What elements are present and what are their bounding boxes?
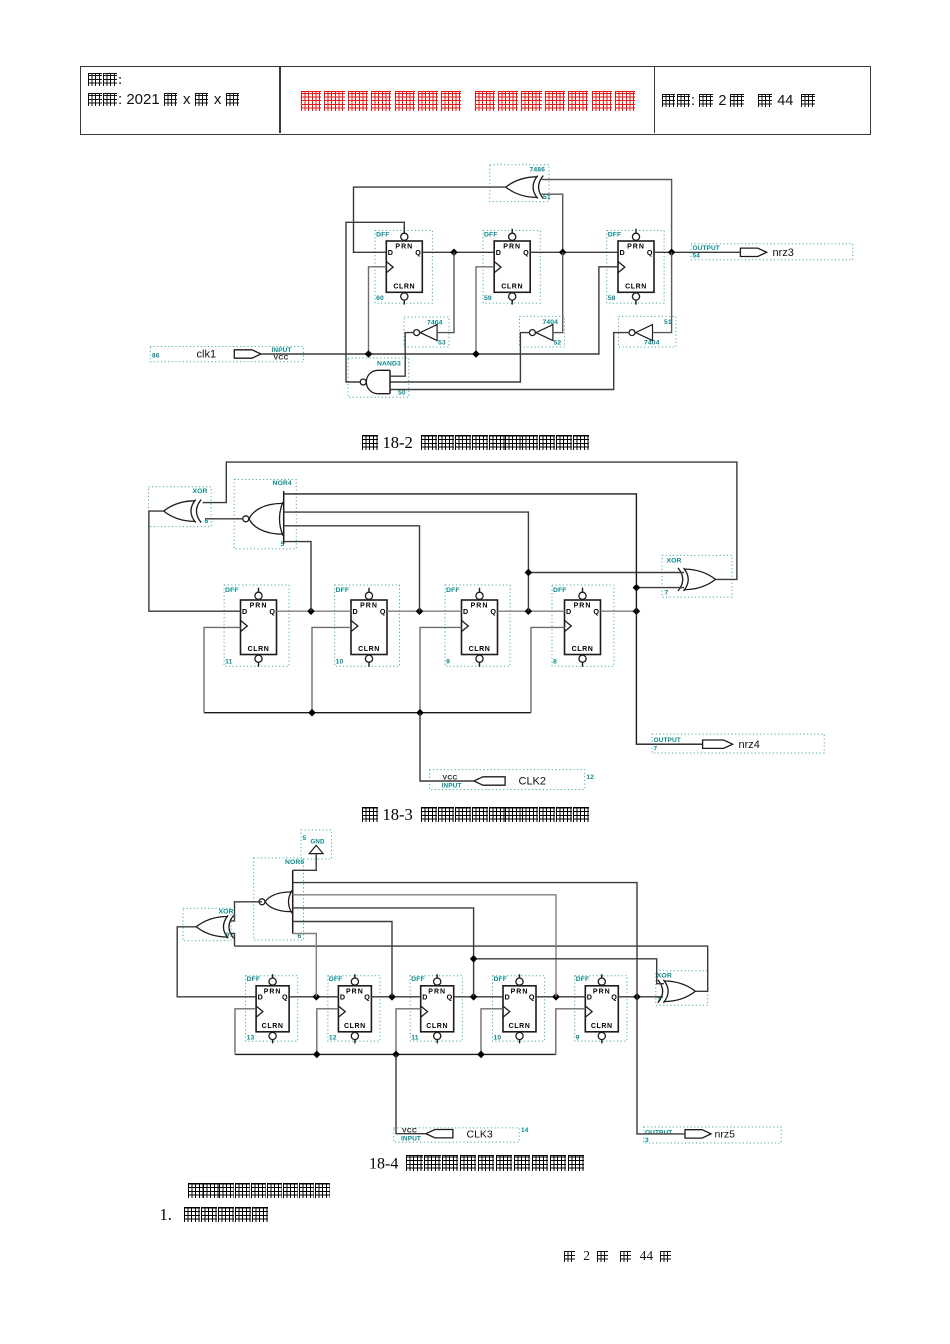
wire: clock riser to U11 — [396, 1009, 421, 1055]
junction node Q2 — [388, 993, 396, 1001]
svg-text:XOR: XOR — [667, 558, 682, 565]
svg-text:5: 5 — [303, 835, 307, 842]
svg-text:NAND3: NAND3 — [377, 361, 401, 368]
wire: XOR U6 output to D of U11 — [149, 511, 241, 611]
svg-text:XOR: XOR — [193, 488, 208, 495]
caption figure 18-2 — [362, 433, 590, 453]
wire: clock riser to U12 — [317, 1009, 339, 1055]
output pin nrz4 flag — [703, 740, 733, 748]
wire: clk1 net to clock inputs — [261, 267, 618, 354]
output pin nrz5 selection box — [644, 1127, 781, 1143]
wire: XOR U6c input2 elbow from long feedback line — [230, 934, 235, 947]
flip-flop U12 clock edge triangle — [338, 1006, 345, 1017]
gate U6c XOR selection box — [183, 908, 231, 940]
svg-text:PRN: PRN — [627, 244, 645, 251]
wire: net Q2 (U59.Q to U58.D) — [530, 251, 618, 253]
svg-text:CLRN: CLRN — [344, 1023, 366, 1030]
wire: clock riser to U10 — [312, 627, 351, 712]
footer page number — [564, 1248, 673, 1264]
flip-flop U8 body — [565, 600, 601, 655]
flip-flop U13 PRN bubble pin — [269, 978, 276, 985]
svg-text:XOR: XOR — [219, 909, 234, 916]
wire: clock rail — [204, 712, 531, 714]
svg-text:13: 13 — [247, 1035, 255, 1042]
svg-text:PRN: PRN — [360, 603, 378, 610]
flip-flop U9 selection box — [445, 585, 510, 666]
svg-text:Q: Q — [611, 993, 617, 1002]
wire: NOR6 input2 to node Q5 — [293, 883, 637, 997]
gate U7 XOR selection box — [662, 555, 732, 597]
flip-flop U59 PRN bubble pin — [509, 233, 516, 240]
gate U6b NOR6 selection box — [254, 858, 304, 940]
input pin CLK3 flag — [426, 1130, 453, 1138]
wire: NOR6 output to XOR U6c input1 — [230, 902, 263, 921]
svg-text:PRN: PRN — [395, 244, 413, 251]
junction clock rail at U10 riser — [308, 709, 316, 717]
svg-text:9: 9 — [576, 1035, 580, 1042]
flip-flop U12 body — [338, 986, 371, 1032]
svg-text:INPUT: INPUT — [401, 1136, 421, 1143]
inverter U51b selection box — [619, 316, 677, 347]
wire: NOR4 input2 to node Q3 riser — [284, 512, 529, 611]
wire: inverter U53 output to NAND input 1 — [390, 333, 414, 377]
svg-text:OUTPUT: OUTPUT — [645, 1130, 672, 1137]
svg-text:NOR4: NOR4 — [273, 480, 292, 487]
header red motto — [301, 89, 638, 115]
wire: Q2 down to inverter U52 input — [553, 252, 563, 332]
flip-flop U8 clock edge triangle — [565, 620, 572, 631]
flip-flop U11b CLRN bubble pin — [434, 1032, 441, 1039]
junction node Q2 — [559, 249, 567, 257]
wire: clock riser to U10 — [481, 1009, 503, 1055]
inverter U51b output bubble — [629, 330, 635, 336]
flip-flop U9b CLRN bubble pin — [598, 1032, 605, 1039]
junction node Q2 — [416, 607, 424, 615]
input pin CLK3 selection box — [394, 1128, 520, 1142]
svg-text:D: D — [258, 993, 263, 1002]
wire: net Q5 (U9.Q to XOR U7b input2) — [618, 996, 663, 998]
flip-flop U11 selection box — [224, 585, 289, 666]
svg-text:Q: Q — [593, 607, 599, 616]
wire: XOR U6c output to D of U13 — [177, 927, 256, 997]
svg-text:D: D — [505, 993, 510, 1002]
flip-flop U8 CLRN bubble pin — [579, 655, 586, 662]
svg-text:DFF: DFF — [576, 976, 590, 983]
junction node Q1 — [450, 249, 458, 257]
wire: node Q5 down to output nrz5 — [637, 997, 685, 1134]
wire: inverter U51 output to NAND input 3 — [390, 333, 629, 390]
svg-text:D: D — [422, 993, 427, 1002]
flip-flop U10b clock edge triangle — [503, 1006, 510, 1017]
flip-flop U58 PRN bubble pin — [632, 233, 639, 240]
flip-flop U9b clock edge triangle — [585, 1006, 592, 1017]
svg-text:Q: Q — [364, 993, 370, 1002]
gate U5 NOR4 (mirrored) input bar — [283, 491, 285, 544]
junction Q3 riser at tap to U7b — [470, 955, 478, 963]
flip-flop U10 selection box — [335, 585, 400, 666]
svg-text:XOR: XOR — [657, 973, 672, 980]
svg-text:VCC: VCC — [274, 355, 289, 362]
gate U51 7486 XOR (mirrored) body — [506, 177, 538, 198]
flip-flop U59 CLRN bubble pin — [509, 293, 516, 300]
flip-flop U60 CLRN bubble pin — [401, 293, 408, 300]
wire: NOR4 input4 elbow to node Q1 — [284, 542, 311, 612]
wire: NOR6 input5 to node Q2 — [293, 922, 392, 997]
svg-text:DFF: DFF — [553, 587, 567, 594]
junction Q3 riser to XOR U7 input1 — [525, 569, 533, 577]
wire: clk riser to U60 clock — [369, 267, 387, 354]
svg-text:D: D — [340, 993, 345, 1002]
svg-text:7486: 7486 — [530, 167, 546, 174]
flip-flop U58 CLRN bubble pin — [632, 293, 639, 300]
wire: CLK2 pin to clock rail — [420, 713, 474, 781]
wire: XOR input2 from node Q2 — [542, 194, 563, 252]
svg-text:PRN: PRN — [503, 244, 521, 251]
svg-text:D: D — [242, 607, 247, 616]
junction clk at U59 riser — [472, 350, 480, 358]
wire: NOR4 input1 to node Q4 riser — [284, 494, 637, 611]
svg-text:CLRN: CLRN — [358, 646, 380, 653]
svg-text:PRN: PRN — [346, 988, 364, 995]
svg-text:DFF: DFF — [608, 232, 622, 239]
wire: Q1 down to inverter U53 input — [437, 252, 454, 332]
svg-text:CLRN: CLRN — [625, 284, 647, 291]
flip-flop U9b PRN bubble pin — [598, 978, 605, 985]
wire: GND to NOR6 input bar top — [293, 854, 317, 871]
flip-flop U13 selection box — [246, 976, 298, 1041]
inverter U52 selection box — [520, 316, 565, 347]
svg-text:50: 50 — [398, 390, 406, 397]
svg-text:nrz5: nrz5 — [715, 1129, 736, 1141]
flip-flop U59 clock edge triangle — [494, 262, 501, 273]
svg-text:clk1: clk1 — [197, 349, 217, 361]
wire: node Q4 down to output nrz4 — [636, 611, 702, 744]
caption figure 18-3 — [362, 805, 590, 825]
svg-text:DFF: DFF — [329, 976, 343, 983]
junction clock rail at U11 riser and CLK3 drop — [392, 1051, 400, 1059]
svg-text:Q: Q — [447, 993, 453, 1002]
flip-flop U60 selection box — [375, 231, 432, 304]
input pin clk1 selection box — [150, 347, 303, 362]
flip-flop U8 PRN bubble pin — [579, 592, 586, 599]
svg-text:10: 10 — [494, 1035, 502, 1042]
svg-text:NOR6: NOR6 — [285, 859, 304, 866]
svg-text:Q: Q — [523, 248, 529, 257]
wire: XOR output to D of U60 — [354, 187, 506, 252]
svg-text:CLRN: CLRN — [501, 284, 523, 291]
wire: net Q3 (U11.Q to U10.D) — [454, 996, 503, 998]
svg-text:Q: Q — [380, 607, 386, 616]
svg-text:nrz4: nrz4 — [739, 739, 760, 751]
wire: NOR4 input3 to node Q2 — [284, 526, 420, 611]
svg-text:DFF: DFF — [446, 587, 460, 594]
gate U7b XOR body — [664, 981, 696, 1002]
flip-flop U60 PRN bubble pin — [401, 233, 408, 240]
gate U7 XOR body — [684, 569, 716, 590]
wire: CLK3 pin to clock rail — [396, 1054, 426, 1133]
inverter U53 triangle — [420, 325, 437, 341]
junction clock rail at U10 riser — [477, 1051, 485, 1059]
svg-text:GND: GND — [311, 839, 325, 846]
svg-text:PRN: PRN — [593, 988, 611, 995]
svg-text:CLK2: CLK2 — [519, 776, 547, 788]
header cell 1 line 1 — [88, 72, 122, 89]
svg-text:51: 51 — [664, 319, 672, 326]
wire: clock rail — [235, 1053, 556, 1055]
svg-text:Q: Q — [269, 607, 275, 616]
svg-text:86: 86 — [152, 353, 160, 360]
wire: clock riser to U9 — [420, 627, 462, 712]
svg-text:CLRN: CLRN — [572, 646, 594, 653]
svg-text:DFF: DFF — [484, 232, 498, 239]
flip-flop U11 PRN bubble pin — [255, 592, 262, 599]
wire: net Q4 (U8.Q to riser) — [601, 610, 637, 612]
svg-text:11: 11 — [225, 659, 233, 666]
svg-text:D: D — [566, 607, 571, 616]
svg-text:nrz3: nrz3 — [773, 247, 794, 259]
junction node Q1 — [313, 993, 321, 1001]
flip-flop U11 CLRN bubble pin — [255, 655, 262, 662]
svg-text:D: D — [587, 993, 592, 1002]
svg-text:DFF: DFF — [411, 976, 425, 983]
wire: clock riser to U9 — [556, 1009, 586, 1055]
svg-text:10: 10 — [336, 659, 344, 666]
flip-flop U13 body — [256, 986, 289, 1032]
svg-text:PRN: PRN — [511, 988, 529, 995]
junction clock rail at U9 riser and CLK2 drop — [416, 709, 424, 717]
junction node Q5 — [633, 993, 641, 1001]
svg-text:Q: Q — [529, 993, 535, 1002]
svg-text:12: 12 — [329, 1035, 337, 1042]
svg-text:52: 52 — [554, 340, 562, 347]
body heading (II) circuit working principle — [188, 1181, 331, 1201]
svg-text:INPUT: INPUT — [272, 347, 292, 354]
inverter U52 output bubble — [529, 330, 535, 336]
flip-flop U11 clock edge triangle — [241, 620, 248, 631]
flip-flop U11b body — [421, 986, 454, 1032]
svg-text:60: 60 — [376, 295, 384, 302]
junction node Q3 — [525, 607, 533, 615]
flip-flop U10b PRN bubble pin — [516, 978, 523, 985]
junction node Q4 — [633, 607, 641, 615]
inverter U52 triangle — [536, 325, 553, 341]
svg-text:OUTPUT: OUTPUT — [693, 245, 720, 252]
flip-flop U60 clock edge triangle — [386, 262, 393, 273]
flip-flop U59 body — [494, 241, 530, 292]
svg-text:59: 59 — [484, 295, 492, 302]
wire: NOR6 input4 to node Q3 — [293, 908, 474, 997]
wire: net Q1 (U13.Q to U12.D) — [289, 996, 338, 998]
wire: inverter U52 output to NAND input 2 — [390, 333, 529, 382]
flip-flop U58 selection box — [607, 231, 664, 304]
gate U50 output bubble — [360, 379, 366, 385]
flip-flop U13 clock edge triangle — [256, 1006, 263, 1017]
gate U6b NOR6 (mirrored) output bubble — [259, 899, 265, 905]
svg-text:CLRN: CLRN — [426, 1023, 448, 1030]
gate U6b NOR6 (mirrored) input bar — [292, 870, 294, 933]
flip-flop U10 body — [351, 600, 387, 655]
output pin nrz3 flag — [740, 248, 766, 256]
wire: clk riser to U59 clock — [476, 267, 494, 354]
wire: XOR U7 input1 from node Q3 riser — [528, 572, 684, 574]
input pin CLK2 flag — [474, 777, 505, 785]
svg-text:7: 7 — [654, 746, 658, 753]
gate U51 7486 XOR selection box — [490, 165, 549, 202]
gate U7b XOR selection box — [656, 971, 708, 1005]
wire: net Q4 (U10.Q to U9.D) — [536, 996, 585, 998]
wire: Q3 down to inverter U51 input — [653, 252, 672, 332]
inverter U53 selection box — [404, 317, 449, 347]
wire: node Q3 to XOR U7b input1 — [474, 959, 664, 984]
svg-text:8: 8 — [553, 659, 557, 666]
flip-flop U58 clock edge triangle — [618, 262, 625, 273]
flip-flop U9 PRN bubble pin — [476, 592, 483, 599]
svg-text:DFF: DFF — [247, 976, 261, 983]
gate U6 XOR (mirrored) body — [164, 501, 196, 522]
gate U5 NOR4 (mirrored) output bubble — [243, 516, 249, 522]
junction clock rail at U12 riser — [313, 1051, 321, 1059]
svg-text:Q: Q — [415, 248, 421, 257]
junction clk at U60 riser — [365, 350, 373, 358]
flip-flop U11b PRN bubble pin — [434, 978, 441, 985]
wire: feedback line from XOR U7b output — [235, 946, 708, 991]
gate U5 NOR4 (mirrored) body — [249, 503, 283, 534]
gate U50 NAND3 body (mirrored) — [366, 370, 390, 393]
ground symbol GND selection box — [301, 830, 332, 859]
wire: NOR4 output to XOR U6 input2 — [205, 518, 243, 520]
flip-flop U10 CLRN bubble pin — [365, 655, 372, 662]
input pin clk1 flag — [234, 350, 261, 358]
svg-text:D: D — [620, 248, 625, 257]
svg-text:D: D — [353, 607, 358, 616]
junction node Q3 — [470, 993, 478, 1001]
output pin nrz5 flag — [685, 1130, 711, 1138]
gate U50 NAND3 selection box — [348, 358, 409, 397]
junction node Q1 — [307, 607, 315, 615]
output pin nrz3 selection box — [691, 244, 853, 260]
svg-text:14: 14 — [521, 1127, 529, 1134]
flip-flop U9 CLRN bubble pin — [476, 655, 483, 662]
svg-text:PRN: PRN — [264, 988, 282, 995]
ground symbol triangle — [309, 845, 323, 853]
wire: XOR U7 input2 from node Q4 riser — [636, 587, 684, 589]
inverter U53 output bubble — [414, 330, 420, 336]
svg-text:CLRN: CLRN — [393, 284, 415, 291]
flip-flop U12 PRN bubble pin — [351, 978, 358, 985]
flip-flop U12 CLRN bubble pin — [351, 1032, 358, 1039]
svg-text:Q: Q — [282, 993, 288, 1002]
flip-flop U11b selection box — [410, 976, 462, 1041]
wire: XOR input1 from node Q3 — [542, 180, 672, 253]
svg-text:12: 12 — [587, 774, 595, 781]
flip-flop U10b CLRN bubble pin — [516, 1032, 523, 1039]
svg-text:PRN: PRN — [428, 988, 446, 995]
svg-text:D: D — [496, 248, 501, 257]
caption figure 18-4 — [369, 1155, 586, 1174]
wire: feedback top line from XOR U7 output to XOR U6 input1 — [203, 462, 737, 579]
flip-flop U9 body — [462, 600, 498, 655]
svg-text:PRN: PRN — [250, 603, 268, 610]
wire: net Q3 (U58.Q to output nrz3) — [654, 251, 740, 253]
flip-flop U9b selection box — [575, 976, 627, 1041]
gate U6 XOR selection box — [149, 487, 212, 527]
junction node Q4 — [552, 993, 560, 1001]
svg-text:Q: Q — [647, 248, 653, 257]
flip-flop U13 CLRN bubble pin — [269, 1032, 276, 1039]
flip-flop U10 PRN bubble pin — [365, 592, 372, 599]
flip-flop U11 body — [241, 600, 277, 655]
svg-text:CLRN: CLRN — [262, 1023, 284, 1030]
input pin CLK2 selection box — [430, 770, 585, 790]
wire: clock riser to U13 — [235, 1009, 256, 1055]
svg-text:INPUT: INPUT — [442, 783, 462, 790]
svg-text:DFF: DFF — [376, 232, 390, 239]
svg-text:PRN: PRN — [471, 603, 489, 610]
svg-text:3: 3 — [645, 1137, 649, 1144]
wire: net Q1 (U11.Q to U10.D) — [277, 610, 352, 612]
flip-flop U12 selection box — [328, 976, 380, 1041]
flip-flop U11b clock edge triangle — [421, 1006, 428, 1017]
wire: NOR6 input3 to node Q4 — [293, 895, 556, 997]
inverter U51b triangle — [636, 325, 653, 341]
wire: net Q1 (U60.Q to U59.D) — [422, 251, 494, 253]
wire: NOR6 input6 elbow to node Q1 — [293, 934, 317, 997]
svg-text:PRN: PRN — [574, 603, 592, 610]
svg-text:OUTPUT: OUTPUT — [654, 737, 681, 744]
svg-text:Q: Q — [490, 607, 496, 616]
svg-text:54: 54 — [693, 253, 701, 260]
svg-text:7404: 7404 — [543, 319, 559, 326]
svg-text:CLRN: CLRN — [509, 1023, 531, 1030]
body item 1 clock signal source — [160, 1205, 269, 1225]
flip-flop U60 body — [386, 241, 422, 292]
svg-text:DFF: DFF — [494, 976, 508, 983]
svg-text:CLK3: CLK3 — [467, 1129, 493, 1141]
svg-text:58: 58 — [608, 295, 616, 302]
gate U6b NOR6 (mirrored) body — [265, 892, 292, 912]
junction Q4 riser to XOR U7 input2 — [633, 584, 641, 592]
flip-flop U10b selection box — [493, 976, 545, 1041]
header table frame — [80, 66, 871, 135]
svg-text:D: D — [388, 248, 393, 257]
svg-text:53: 53 — [438, 340, 446, 347]
svg-text:CLRN: CLRN — [591, 1023, 613, 1030]
svg-text:CLRN: CLRN — [248, 646, 270, 653]
gate U6c XOR (mirrored) body — [196, 917, 228, 938]
flip-flop U59 selection box — [483, 231, 540, 304]
svg-text:DFF: DFF — [336, 587, 350, 594]
gate U5 NOR4 selection box — [234, 480, 296, 549]
flip-flop U10b body — [503, 986, 536, 1032]
wire: net Q2 (U12.Q to U11.D) — [371, 996, 420, 998]
flip-flop U58 body — [618, 241, 654, 292]
wire: clock riser to U8 — [531, 627, 565, 712]
wire: clock riser to U11 — [204, 627, 241, 712]
header cell 3 page numbers — [662, 93, 817, 109]
svg-text:DFF: DFF — [225, 587, 239, 594]
flip-flop U9 clock edge triangle — [462, 620, 469, 631]
flip-flop U10 clock edge triangle — [351, 620, 358, 631]
svg-text:51: 51 — [543, 194, 551, 201]
flip-flop U8 selection box — [552, 585, 614, 666]
svg-text:7: 7 — [665, 590, 669, 597]
header cell 1 line 2 — [88, 91, 241, 108]
flip-flop U9b body — [585, 986, 618, 1032]
svg-text:9: 9 — [446, 659, 450, 666]
svg-text:CLRN: CLRN — [469, 646, 491, 653]
wire: net Q2 (U10.Q to U9.D) — [387, 610, 462, 612]
output pin nrz4 selection box — [652, 734, 824, 753]
